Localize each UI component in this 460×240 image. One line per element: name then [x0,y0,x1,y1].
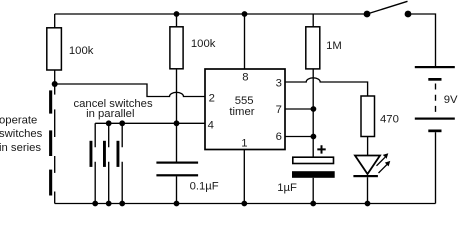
operate switches in series: wire segment 3 [54,156,56,173]
resistor 100k left [47,28,62,70]
LED arrow 1 [377,153,389,166]
svg-text:timer: timer [229,106,254,118]
pin number 7 [276,104,282,116]
wire pin 8 stub from top rail [244,14,246,69]
wire top rail right segment [408,14,436,67]
value label 9V [444,94,458,106]
battery B1 cell1 short plate [428,78,441,81]
wire 470 to LED [367,137,369,156]
series switch bar 1 [49,90,52,113]
wire capacitor to ground rail [176,176,178,203]
wire 1M top stub [312,14,314,27]
value label 0.1uF [190,181,219,193]
pin number 4 [208,119,214,131]
capacitor 0.1uF top plate [156,162,198,164]
node dot branch2 bottom [106,201,112,207]
svg-text:4: 4 [208,119,214,131]
node dot R2/pin4 junction [174,120,180,126]
value label 100k middle [191,38,216,50]
svg-text:switches: switches [0,128,43,140]
wire pin 6 stub [285,136,313,138]
node dot branch2 top [106,120,112,126]
operate switches in series: wire segment 1 [54,84,56,95]
series switch bar 3 [49,170,52,196]
switch S1 right contact [405,11,412,18]
wire R2 top stub [176,14,178,27]
resistor 1M [306,27,320,69]
battery dashed link [435,84,437,113]
resistor 100k middle [170,27,183,69]
LED arrow 2 [379,161,391,173]
wire pin 3 to resistor 470 with hop [285,78,368,96]
wire top rail left segment [55,13,367,15]
node dot branch3 top [119,120,125,126]
pin number 6 [276,131,282,143]
svg-text:470: 470 [380,113,399,125]
wire parallel-switch top rail to 555 pin 4 [95,122,205,124]
resistor 470 [361,96,375,137]
wire R1 top stub [54,14,56,28]
node top rail / R1 junction dot [174,11,180,17]
node dot 1uF bottom [310,201,316,207]
node dot cap bottom [174,201,180,207]
svg-text:9V: 9V [444,94,458,106]
value label 100k left [69,45,94,57]
LED D1 triangle [355,156,380,175]
wire pin 7 stub [285,108,313,110]
svg-text:100k: 100k [69,45,94,57]
battery B1 cell2 long plate [415,118,455,120]
switch S1 lever [367,1,408,14]
pin number 3 [276,77,282,89]
node dot LED bottom [365,201,371,207]
wire R2 bottom to pin4 rail and capacitor [176,69,178,162]
wire from node to 555 pin 2 with hop [55,84,205,97]
capacitor 1uF positive plate (hollow) [293,157,334,163]
operate switches in series: wire segment 4 [54,192,56,204]
wire R1 bottom stub [54,70,56,84]
op 555 timer IC box U1 [205,69,285,150]
svg-text:7: 7 [276,104,282,116]
pin number 8 [242,72,248,84]
wire ground rail [55,203,436,205]
value label 470 [380,113,399,125]
wire 1uF to ground rail [312,178,314,204]
cancel switch branch 2 wires [108,123,110,203]
svg-text:operate: operate [0,115,37,127]
pin number 2 [209,93,215,105]
svg-text:3: 3 [276,77,282,89]
cancel switch branch 3 wires [121,123,123,203]
value label 1uF [277,182,297,194]
node dot pin7 junction [311,106,317,112]
node dot pin1 bottom [241,201,247,207]
label cancel switches in parallel [74,98,153,120]
capacitor 0.1uF bottom plate [156,174,198,176]
wire pin 1 stub to ground rail [243,150,245,204]
cancel switch branch 1 bar [90,141,93,167]
svg-text:8: 8 [242,72,248,84]
wire LED to ground rail [367,177,369,203]
wire battery negative to ground rail [435,132,437,203]
operate switches in series: wire segment 2 [54,109,56,137]
polarity plus sign [317,145,325,153]
cancel switch branch 3 bar [117,141,120,167]
node dot branch1 bottom [92,201,98,207]
LED D1 cathode bar [353,175,378,177]
series switch bar 2 [49,130,52,156]
node junction dot R1 bottom [52,81,58,87]
svg-text:in series: in series [0,142,41,154]
pin number 1 [241,138,247,150]
svg-text:0.1µF: 0.1µF [190,181,219,193]
capacitor 1uF negative plate (solid) [292,171,335,178]
cancel switch branch 2 bar [103,141,106,167]
svg-text:1: 1 [241,138,247,150]
wire 1M bottom through junctions to capacitor 1uF [312,69,314,157]
svg-text:100k: 100k [191,38,216,50]
svg-text:2: 2 [209,93,215,105]
node top rail / pin8 junction dot [242,11,248,17]
svg-text:1M: 1M [326,40,342,52]
svg-text:6: 6 [276,131,282,143]
switch S1 left contact [364,11,371,18]
svg-text:in parallel: in parallel [86,108,134,120]
battery B1 cell1 long plate [415,66,455,68]
battery B1 cell2 short plate [428,130,441,133]
value label 1M [326,40,342,52]
svg-text:1µF: 1µF [277,182,297,194]
cancel switch branch 1 wires [94,123,96,203]
label 555 timer [229,95,254,118]
node dot pin6 junction [311,134,317,140]
label operate switches in series [0,115,43,154]
node dot branch3 bottom [119,201,125,207]
